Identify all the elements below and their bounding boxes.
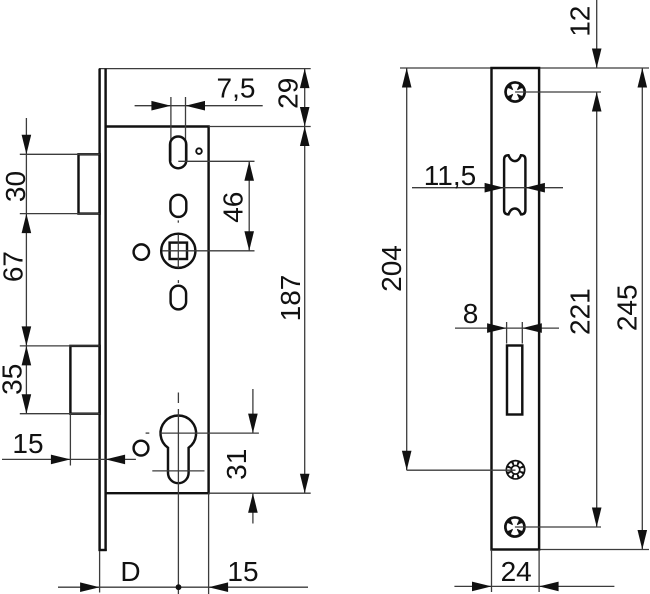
arrow down to deadbolt bottom (35 bottom) [22, 394, 32, 414]
dimension 46 line [248, 161, 250, 251]
centre tick above cylinder [177, 393, 179, 404]
arrow down 245 [638, 530, 648, 550]
faceplate right edge [104, 69, 106, 551]
arrow down 12 [592, 49, 602, 69]
dimension 31 lower tail [252, 493, 254, 523]
svg-text:24: 24 [501, 556, 532, 587]
middle oval hole [170, 195, 186, 217]
arrow down to deadbolt top [22, 326, 32, 346]
bottom dimension line D/15 [58, 586, 308, 588]
arrow right to deadbolt face [51, 455, 71, 465]
bolt slot [507, 346, 522, 415]
cylinder vertical centre line [177, 409, 179, 594]
fixing hole lower left [134, 441, 149, 456]
plate top extension line [400, 67, 649, 69]
svg-text:187: 187 [275, 275, 306, 322]
third oval hole [171, 286, 187, 310]
latch bolt [79, 154, 100, 213]
arrow down 187 [300, 474, 310, 494]
top screw [504, 81, 526, 103]
arrow right to cutout left [485, 183, 505, 193]
latch top extension line [20, 153, 100, 155]
slot ext lines [506, 322, 508, 344]
spindle horizontal centre line (46 bottom ext) [162, 250, 254, 252]
arrow left to cutout right [525, 183, 545, 193]
faceplate top extension line [99, 68, 311, 70]
svg-text:31: 31 [221, 449, 252, 480]
arrow right to 170.9 [151, 101, 171, 111]
dimension 7,5 extension lines [170, 97, 172, 161]
arrow left to slot right [522, 323, 542, 333]
fixing hole left of spindle [134, 244, 149, 259]
arrow left to plate right [539, 582, 559, 592]
dimension 7,5 line [135, 105, 263, 107]
arrow left to 185.5 [186, 101, 206, 111]
arrow up 187 [300, 127, 310, 147]
svg-text:15: 15 [227, 556, 258, 587]
dimension 245 line [641, 68, 643, 550]
arrow left to case right [209, 582, 229, 592]
latch cutout [504, 155, 525, 214]
dimension 8 line [455, 327, 559, 329]
centre tick above third oval [177, 280, 179, 283]
case bottom extension line [209, 492, 311, 494]
deadbolt face extension line down [69, 414, 71, 466]
arrow right to faceplate front [80, 582, 100, 592]
dimension 204 hline to middle screw [407, 469, 516, 471]
case right ext down [208, 493, 210, 594]
faceplate left ext down [99, 551, 101, 593]
spindle follower circle [161, 234, 195, 268]
arrow up 245 [638, 68, 648, 88]
arrow down 221 [592, 508, 602, 528]
case top extension line [209, 126, 311, 128]
arrow up to latch bottom [22, 214, 32, 234]
middle screw hole (torx) [506, 460, 526, 480]
screw hole line through cylinder slot [152, 470, 204, 472]
dimension 24 ext lines [491, 550, 493, 593]
svg-text:35: 35 [0, 364, 27, 395]
centre dot [176, 584, 182, 590]
svg-text:8: 8 [463, 298, 479, 329]
plate bottom extension line [539, 549, 649, 551]
svg-text:7,5: 7,5 [217, 73, 256, 104]
spindle square [170, 243, 187, 259]
arrow down 46 [244, 231, 254, 251]
svg-text:204: 204 [376, 245, 407, 292]
dimension 187 line [304, 127, 306, 494]
arrow right to plate left [472, 582, 492, 592]
arrow left to faceplate [106, 455, 126, 465]
centre tick below middle oval [177, 220, 179, 222]
svg-text:D: D [120, 556, 140, 587]
dimension 24 line [454, 585, 614, 587]
arrow down 204 [402, 451, 412, 471]
latch guide slot (top oval) [170, 137, 186, 169]
spindle vertical centre line [177, 234, 179, 268]
svg-text:245: 245 [612, 284, 643, 331]
arrow down to latch top [22, 135, 32, 155]
bottom screw [504, 516, 526, 538]
arrow up 29 [300, 69, 310, 89]
arrow up to case bottom [248, 493, 258, 513]
dimension 15 (deadbolt protrusion) line [2, 458, 136, 460]
dimension 11,5 line [412, 187, 563, 189]
cylinder horizontal centre line [161, 432, 259, 434]
svg-text:11,5: 11,5 [424, 160, 476, 191]
arrow down 29 [300, 107, 310, 127]
deadbolt [70, 346, 99, 414]
small hole right of slot [196, 148, 202, 154]
dimension 12 line [596, 0, 598, 68]
faceplate left edge [98, 69, 100, 551]
arrow right to slot left [487, 323, 507, 333]
euro profile cylinder hole [161, 415, 197, 483]
arrow up 204 [402, 68, 412, 88]
arrow down to cylinder centre [248, 414, 258, 434]
latch centre extension line (46 top) [178, 160, 254, 162]
svg-text:29: 29 [273, 78, 304, 109]
svg-text:221: 221 [565, 288, 596, 335]
left dimension line 30/67/35 [25, 118, 27, 414]
deadbolt bottom extension line [20, 413, 100, 415]
plate outline [492, 68, 540, 550]
arrow up from below deadbolt top (35 top) [22, 346, 32, 366]
arrow up 221 [592, 92, 602, 112]
arrow up 46 [244, 161, 254, 181]
deadbolt top extension line [20, 345, 100, 347]
latch bottom extension line [20, 213, 100, 215]
dimension 204 line [406, 68, 408, 470]
faceplate bottom edge [99, 549, 107, 551]
dimension 31 upper tail [252, 389, 254, 433]
dimension 221 line [596, 92, 598, 527]
dimension 29 line [304, 69, 306, 127]
svg-text:12: 12 [565, 6, 596, 37]
lock case outline [106, 127, 209, 494]
svg-text:67: 67 [0, 251, 29, 282]
svg-text:46: 46 [217, 192, 248, 223]
bottom screw centre line to dimension [515, 526, 601, 528]
svg-text:15: 15 [12, 428, 43, 459]
top screw centre line to dimension [515, 91, 601, 93]
tick left of cylinder [146, 432, 150, 434]
svg-text:30: 30 [0, 171, 31, 202]
